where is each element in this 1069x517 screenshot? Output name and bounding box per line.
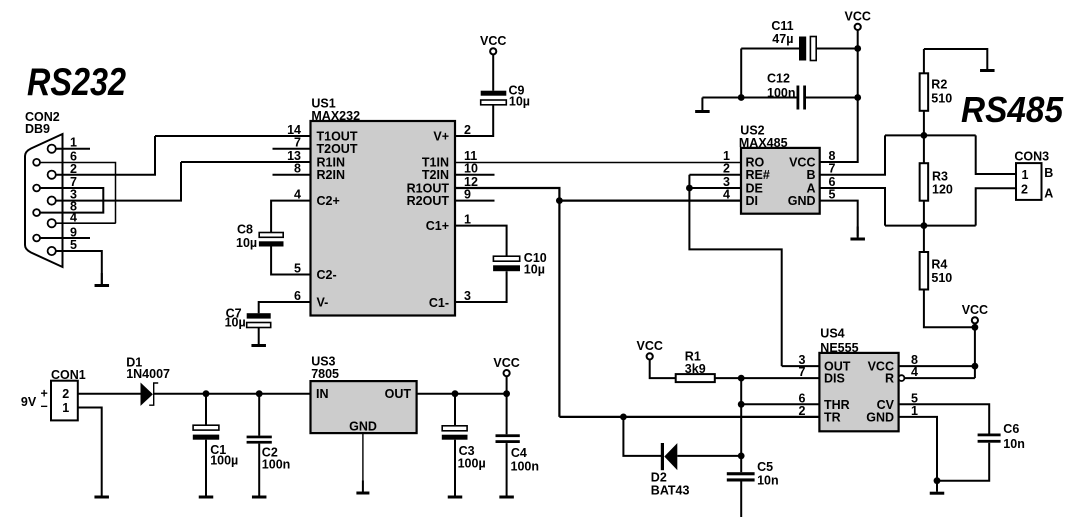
junction US4 ground node xyxy=(934,477,941,484)
svg-text:R2IN: R2IN xyxy=(317,168,345,182)
svg-text:100µ: 100µ xyxy=(458,457,486,471)
wire R2 bottom lead xyxy=(923,111,925,136)
svg-text:10: 10 xyxy=(464,162,478,176)
svg-text:R: R xyxy=(885,372,894,386)
svg-text:C1+: C1+ xyxy=(426,219,449,233)
svg-text:7: 7 xyxy=(799,365,806,379)
ground below C4 xyxy=(499,485,513,499)
ground below US4 xyxy=(930,481,945,495)
wire US1 C2+ pin 4 to C8 xyxy=(271,201,310,233)
wire D2 anode to C5 node xyxy=(677,455,741,457)
svg-text:510: 510 xyxy=(931,271,952,285)
ground at C11/C12 xyxy=(695,99,710,113)
US2 right pin names xyxy=(788,156,816,209)
wire C4 bottom lead xyxy=(506,443,508,484)
junction C12 to VCC rail xyxy=(854,94,861,101)
wire C12 left lead and ground arm xyxy=(702,97,796,99)
wire US4 CV pin 5 to C6 xyxy=(899,404,990,433)
op-amp US1 MAX232 body xyxy=(311,121,456,316)
junction B net at R2/R3 xyxy=(921,132,928,139)
wire C2 bottom lead xyxy=(258,444,260,485)
svg-text:MAX485: MAX485 xyxy=(739,136,788,150)
svg-text:T2IN: T2IN xyxy=(422,168,449,182)
junction C1 node xyxy=(203,390,210,397)
svg-text:100µ: 100µ xyxy=(210,453,238,467)
VCC symbol above C4 xyxy=(493,356,519,376)
svg-text:RS485: RS485 xyxy=(961,89,1064,130)
wire to US1 R1IN pin 13 xyxy=(181,161,311,163)
resistor R4 xyxy=(920,252,929,290)
VCC symbol at R1 xyxy=(636,339,662,359)
svg-text:A: A xyxy=(1044,187,1053,201)
timer US4 NE555 body xyxy=(819,353,898,431)
svg-text:IN: IN xyxy=(316,387,329,401)
VCC symbol near US4 xyxy=(962,303,988,323)
wire C1 top lead xyxy=(205,394,207,426)
VCC symbol above C9 xyxy=(480,34,506,54)
capacitor C12 xyxy=(797,86,807,110)
svg-text:BAT43: BAT43 xyxy=(651,483,690,497)
wire US2 DE pin 3 xyxy=(689,187,741,189)
capacitor C5 xyxy=(727,472,755,481)
svg-text:1: 1 xyxy=(911,404,918,418)
junction C4/VCC node xyxy=(503,390,510,397)
svg-text:5: 5 xyxy=(294,262,301,276)
US2 left pin numbers xyxy=(723,149,730,202)
wire US2 VCC pin 8 up to VCC xyxy=(820,30,858,162)
svg-text:3k9: 3k9 xyxy=(685,362,706,376)
svg-text:100n: 100n xyxy=(511,460,540,474)
svg-text:DB9: DB9 xyxy=(25,122,50,136)
svg-text:VCC: VCC xyxy=(962,303,988,317)
wire A net bottom rail xyxy=(885,225,976,227)
svg-text:GND: GND xyxy=(349,419,377,433)
ground below US3 xyxy=(356,481,369,495)
junction A net at R3/R4 xyxy=(921,222,928,229)
svg-text:3: 3 xyxy=(464,289,471,303)
svg-text:8: 8 xyxy=(294,162,301,176)
wire C2 top lead xyxy=(258,394,260,436)
svg-text:VCC: VCC xyxy=(493,356,519,370)
svg-text:C5: C5 xyxy=(757,460,773,474)
svg-text:10µ: 10µ xyxy=(236,236,257,250)
svg-text:C11: C11 xyxy=(771,19,793,33)
CON2 pin 9 contact xyxy=(33,235,40,242)
wire R2 top lead xyxy=(923,49,925,73)
svg-text:−: − xyxy=(41,400,48,414)
wire VCC stub xyxy=(974,323,976,327)
wire TR node down to D2 cathode xyxy=(623,417,661,456)
junction C11 to VCC rail xyxy=(854,45,861,52)
svg-text:10µ: 10µ xyxy=(524,263,545,277)
US1 right pin names xyxy=(407,130,450,310)
svg-text:10n: 10n xyxy=(757,474,779,488)
wire C5 bottom lead to edge xyxy=(740,482,742,517)
wire R3 top lead xyxy=(923,135,925,163)
svg-text:2: 2 xyxy=(723,162,730,176)
svg-text:7805: 7805 xyxy=(311,367,339,381)
svg-text:R2OUT: R2OUT xyxy=(407,194,450,208)
junction D2/C5 node xyxy=(738,453,745,460)
wire C6 bottom to ground node xyxy=(937,443,989,481)
svg-text:MAX232: MAX232 xyxy=(311,109,360,123)
svg-text:2: 2 xyxy=(1021,183,1028,197)
wire D1 to US3 IN xyxy=(154,393,311,395)
connector CON2 DB9 shell xyxy=(25,134,63,267)
junction TR/D2 node xyxy=(620,414,627,421)
wire CON1 pin 1 to ground xyxy=(78,408,102,485)
capacitor C9 xyxy=(481,91,507,105)
US2 left pin names xyxy=(746,156,770,209)
svg-text:7: 7 xyxy=(829,162,836,176)
wire DIS node down to C5 xyxy=(740,378,742,456)
capacitor C8 xyxy=(259,233,284,247)
wire C4 top lead xyxy=(506,394,508,435)
svg-text:C2+: C2+ xyxy=(317,194,340,208)
svg-text:US4: US4 xyxy=(820,326,844,340)
CON2 pin 3 contact xyxy=(48,197,56,205)
wire A net to CON3 pin 2 xyxy=(976,188,1016,225)
svg-text:4: 4 xyxy=(911,365,918,379)
wire CON2 pin 3 up to R1IN row xyxy=(56,162,181,201)
svg-text:1N4007: 1N4007 xyxy=(126,367,170,381)
wire US4 R pin 4 to VCC xyxy=(904,377,975,379)
svg-text:5: 5 xyxy=(829,188,836,202)
wire US1 T2OUT pin 7 stub xyxy=(273,148,311,150)
junction THR node xyxy=(738,401,745,408)
svg-text:DIS: DIS xyxy=(824,372,845,386)
wire US1 V+ pin 2 to C9 xyxy=(455,105,493,136)
US4 right pin numbers xyxy=(911,353,918,418)
wire CON2 pin 2 up to T1OUT row xyxy=(56,136,155,175)
wire US4 OUT pin 3 xyxy=(782,365,820,367)
svg-text:VCC: VCC xyxy=(636,339,662,353)
regulator US3 7805 body xyxy=(311,381,417,433)
wire C3 bottom lead xyxy=(454,440,456,485)
wire VCC down to US4 xyxy=(974,327,976,378)
wire US1 R1OUT pin 12 down to US4 TR row xyxy=(455,188,559,417)
svg-text:C1-: C1- xyxy=(429,296,449,310)
wire C9 to VCC xyxy=(492,54,494,90)
svg-text:10µ: 10µ xyxy=(225,316,246,330)
junction C3 node xyxy=(452,390,459,397)
junction C2 node xyxy=(256,390,263,397)
resistor R3 xyxy=(920,163,929,201)
wire R4 top lead xyxy=(923,226,925,252)
US1 left pin numbers xyxy=(287,123,301,303)
US1 right pin numbers xyxy=(464,123,478,303)
wire US1 R2OUT pin 9 stub xyxy=(455,200,495,202)
svg-text:TR: TR xyxy=(824,410,841,424)
wire US4 TR pin 2 from R1OUT net xyxy=(559,416,819,418)
junction RE#-DE tie xyxy=(686,185,693,192)
svg-text:C8: C8 xyxy=(237,222,253,236)
wire US2 RE# pin 2 xyxy=(689,174,741,176)
svg-text:120: 120 xyxy=(932,183,953,197)
CON2 pin 8 contact xyxy=(33,209,40,216)
svg-text:B: B xyxy=(1044,166,1053,180)
svg-text:NE555: NE555 xyxy=(820,341,858,355)
ground below C3 xyxy=(448,485,463,499)
svg-text:47µ: 47µ xyxy=(772,32,793,46)
wire US1 T1IN pin 11 to US2 RO pin 1 xyxy=(455,162,741,164)
CON2 pin 2 contact xyxy=(48,171,56,179)
wire US1 R2IN pin 8 stub xyxy=(273,174,311,176)
svg-text:6: 6 xyxy=(294,289,301,303)
US4 right pin names xyxy=(866,360,894,425)
wire US2 A pin 6 down xyxy=(820,188,885,226)
wire C8 to US1 C2- pin 5 xyxy=(271,247,310,275)
junction R1OUT net at R2OUT row xyxy=(556,197,563,204)
svg-text:7: 7 xyxy=(294,136,301,150)
svg-text:OUT: OUT xyxy=(385,387,412,401)
svg-text:C2-: C2- xyxy=(317,268,337,282)
US4 left pin numbers xyxy=(799,353,806,418)
CON2 pin 1 contact xyxy=(48,145,56,153)
CON2 pin 4 contact xyxy=(48,219,56,227)
wire US3 GND lead xyxy=(362,433,364,480)
svg-text:C4: C4 xyxy=(511,446,527,460)
CON2 pin 5 contact xyxy=(48,247,56,255)
transceiver US2 MAX485 body xyxy=(741,148,820,214)
wire US4 GND pin 1 down xyxy=(899,417,937,481)
capacitor C10 xyxy=(493,256,520,271)
ground below US2 xyxy=(850,227,865,241)
wire CON2 pin 9 stub xyxy=(40,237,90,239)
svg-text:R4: R4 xyxy=(931,258,947,272)
connector CON1 body xyxy=(51,381,78,421)
junction DIS node xyxy=(738,375,745,382)
wire B net to CON3 pin 1 xyxy=(976,135,1016,174)
wire R3 bottom lead xyxy=(923,201,925,226)
wire CON2 pin 7 to pin 8 loop xyxy=(40,188,103,213)
svg-text:10n: 10n xyxy=(1003,437,1025,451)
svg-text:1: 1 xyxy=(70,136,77,150)
terminator bar above RS485 xyxy=(980,58,995,72)
wire C1 bottom lead xyxy=(205,440,207,485)
US4 reset pin inversion bubble xyxy=(899,375,905,381)
svg-text:2: 2 xyxy=(464,123,471,137)
diode D1 1N4007 xyxy=(141,382,159,406)
svg-text:RS232: RS232 xyxy=(27,61,126,104)
svg-text:9V: 9V xyxy=(21,395,37,409)
capacitor C2 xyxy=(247,436,272,444)
junction US4 VCC/reset tie xyxy=(972,363,979,370)
wire US4 THR pin 6 xyxy=(741,403,819,405)
wire US1 C1+ pin 1 to C10 xyxy=(455,226,507,257)
svg-text:V-: V- xyxy=(317,296,329,310)
wire C11 to C12 node xyxy=(740,49,742,98)
svg-text:VCC: VCC xyxy=(844,10,870,24)
CON2 pin 7 contact xyxy=(33,185,40,192)
wire C11 left lead xyxy=(741,48,799,50)
svg-text:VCC: VCC xyxy=(480,34,506,48)
svg-text:+: + xyxy=(41,387,48,401)
capacitor C3 xyxy=(442,426,468,440)
diode D2 BAT43 xyxy=(661,443,678,470)
wire CON1 pin 2 to D1 xyxy=(78,393,141,395)
wire C12 right lead xyxy=(806,97,858,99)
svg-text:DI: DI xyxy=(746,194,759,208)
US1 left pin names xyxy=(317,130,358,310)
wire R2 to top terminator xyxy=(924,49,987,58)
svg-text:2: 2 xyxy=(62,387,69,401)
svg-text:100n: 100n xyxy=(767,86,796,100)
capacitor C11 xyxy=(799,37,816,61)
wire US4 VCC pin 8 xyxy=(899,365,975,367)
svg-text:R3: R3 xyxy=(932,169,948,183)
svg-text:4: 4 xyxy=(723,188,730,202)
svg-text:510: 510 xyxy=(931,92,952,106)
svg-text:9: 9 xyxy=(464,188,471,202)
wire RE#/DE net down to US4 OUT xyxy=(689,175,781,366)
wire US1 V- pin 6 to C7 xyxy=(259,302,311,313)
resistor R1 xyxy=(676,374,715,382)
wire CON2 pin 6 to pin 4 loop xyxy=(40,163,116,224)
svg-text:5: 5 xyxy=(70,238,77,252)
wire R1OUT net to US2 DI pin 4 xyxy=(559,200,741,202)
junction R4/VCC xyxy=(972,324,979,331)
svg-text:T2OUT: T2OUT xyxy=(317,142,358,156)
svg-text:CON1: CON1 xyxy=(51,368,86,382)
wire US2 GND pin 5 to ground xyxy=(820,201,858,237)
VCC symbol above US2 xyxy=(844,10,870,30)
US2 right pin numbers xyxy=(829,149,836,202)
wire US3 OUT to VCC node xyxy=(417,393,507,395)
ground at CON1 xyxy=(94,485,109,499)
wire CON2 pin 1 stub xyxy=(56,148,90,150)
svg-text:GND: GND xyxy=(866,410,894,424)
svg-text:1: 1 xyxy=(62,401,69,415)
capacitor C1 xyxy=(193,425,219,440)
wire US2 B pin 7 up xyxy=(820,135,885,174)
svg-text:100n: 100n xyxy=(262,458,291,472)
svg-text:CON3: CON3 xyxy=(1014,150,1049,164)
wire C5 top lead xyxy=(740,456,742,472)
capacitor C6 xyxy=(978,434,1001,443)
wire VCC to R1 xyxy=(650,360,676,379)
svg-text:R2: R2 xyxy=(931,78,947,92)
connector CON3 body xyxy=(1016,163,1042,200)
svg-text:4: 4 xyxy=(294,188,301,202)
wire C3 top lead xyxy=(454,394,456,426)
CON2 pin 6 contact xyxy=(33,159,40,166)
wire VCC to OUT rail xyxy=(506,376,508,394)
svg-text:B: B xyxy=(806,168,815,182)
wire to ground at C12 xyxy=(701,98,703,100)
resistor R2 xyxy=(920,73,929,111)
svg-text:C12: C12 xyxy=(767,71,790,85)
ground at CON2 pin 5 xyxy=(95,273,110,287)
wire R4 bottom to VCC node xyxy=(924,290,975,328)
wire to US1 T1OUT pin 14 xyxy=(155,135,311,137)
US4 left pin names xyxy=(824,360,851,425)
wire C7 to ground xyxy=(258,328,260,334)
svg-text:GND: GND xyxy=(788,194,816,208)
svg-text:RE#: RE# xyxy=(746,168,770,182)
wire C11 right lead xyxy=(816,48,858,50)
wire R1 to US4 DIS pin 7 xyxy=(715,377,820,379)
wire C10 to US1 C1- pin 3 xyxy=(455,271,507,302)
wire CON2 pin 5 to ground xyxy=(56,251,102,284)
wire US1 T2IN pin 10 stub xyxy=(455,174,495,176)
svg-text:1: 1 xyxy=(1022,168,1029,182)
ground below C1 xyxy=(199,485,214,499)
junction C12 left node xyxy=(738,94,745,101)
capacitor C7 xyxy=(247,313,271,327)
svg-text:10µ: 10µ xyxy=(509,95,530,109)
wire CON2 pin 4 xyxy=(56,222,116,224)
svg-text:C6: C6 xyxy=(1003,422,1019,436)
svg-text:1: 1 xyxy=(464,213,471,227)
capacitor C4 xyxy=(496,434,520,443)
wire B net top rail xyxy=(885,134,976,136)
ground below C2 xyxy=(252,485,267,499)
svg-text:V+: V+ xyxy=(433,130,449,144)
ground below C7 xyxy=(251,333,266,347)
